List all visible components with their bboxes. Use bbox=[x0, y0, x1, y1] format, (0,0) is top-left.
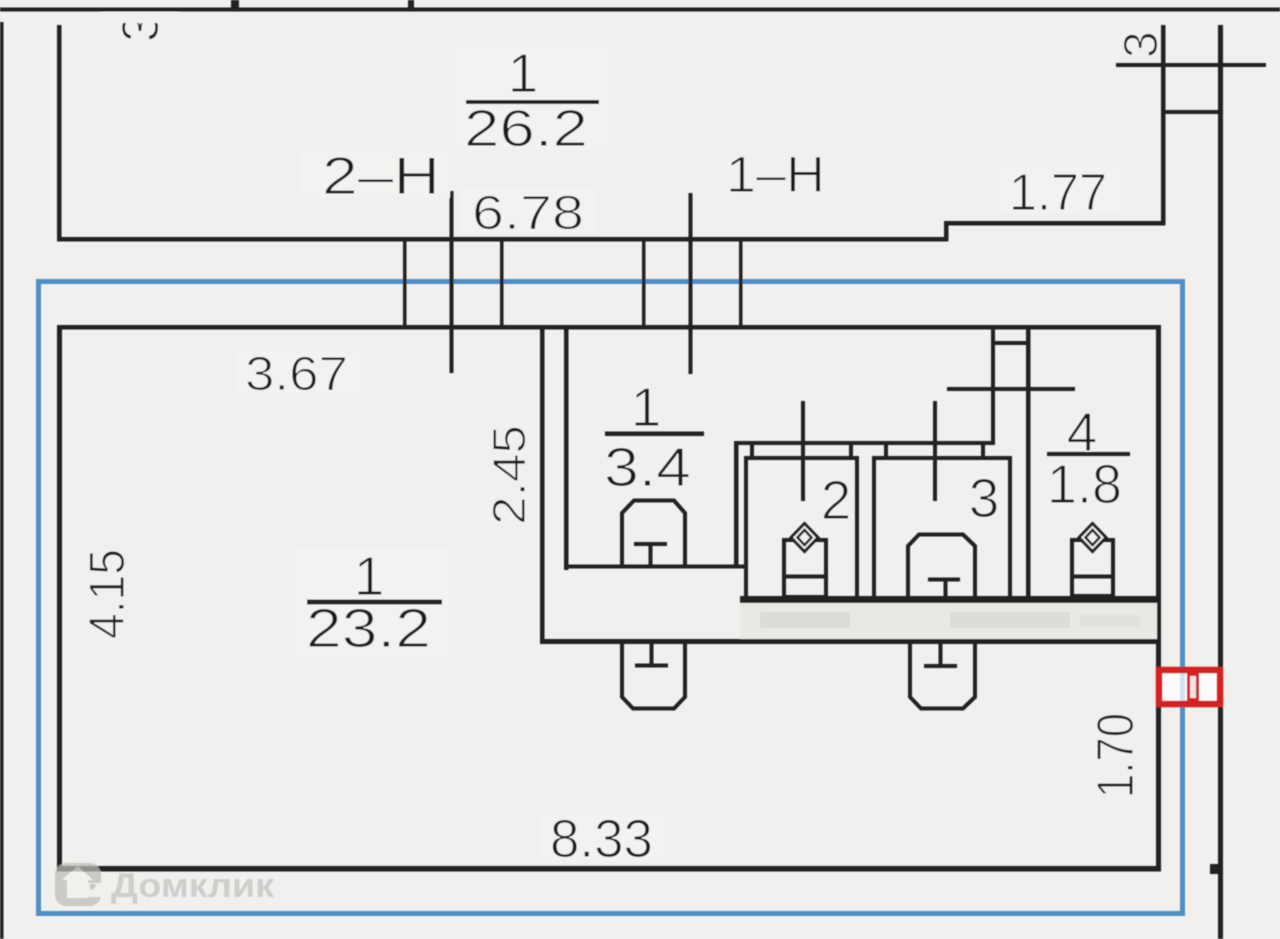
svg-text:4.15: 4.15 bbox=[79, 549, 135, 639]
svg-text:3.4: 3.4 bbox=[604, 436, 691, 498]
svg-text:1.77: 1.77 bbox=[1009, 164, 1107, 222]
svg-text:2: 2 bbox=[821, 469, 852, 531]
svg-text:1: 1 bbox=[508, 42, 539, 104]
svg-text:2–Н: 2–Н bbox=[322, 147, 440, 206]
svg-text:1–Н: 1–Н bbox=[726, 146, 825, 203]
svg-text:1.8: 1.8 bbox=[1047, 453, 1122, 515]
svg-text:1.70: 1.70 bbox=[1087, 713, 1145, 798]
svg-text:Домклик: Домклик bbox=[111, 867, 275, 905]
svg-text:8.33: 8.33 bbox=[550, 809, 653, 869]
svg-text:1: 1 bbox=[631, 376, 662, 438]
svg-text:23.2: 23.2 bbox=[306, 597, 431, 659]
svg-text:3.67: 3.67 bbox=[245, 348, 348, 401]
svg-text:2.45: 2.45 bbox=[483, 425, 535, 525]
svg-text:3: 3 bbox=[969, 467, 1000, 529]
svg-text:3: 3 bbox=[1115, 31, 1168, 58]
svg-text:26.2: 26.2 bbox=[464, 100, 588, 158]
svg-text:6.78: 6.78 bbox=[472, 187, 584, 240]
